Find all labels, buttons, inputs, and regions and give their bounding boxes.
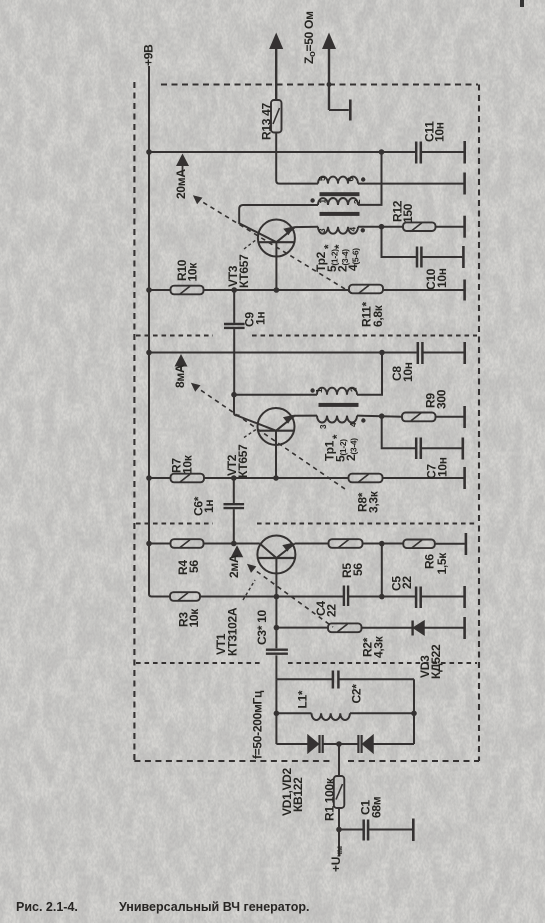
wire stage3 supply (y152) xyxy=(149,151,464,153)
shield box dashed top edge xyxy=(161,83,478,85)
svg-text:2: 2 xyxy=(353,199,362,204)
node tank right L1 xyxy=(411,711,417,717)
svg-text:С3* 10: С3* 10 xyxy=(255,609,269,645)
resistor R12 xyxy=(403,222,436,231)
varactor VD2 xyxy=(358,735,373,753)
wire stage3 base bias (y290) xyxy=(149,289,464,291)
svg-text:10н: 10н xyxy=(435,268,449,288)
wire Tr2 pin2 up to node152 xyxy=(358,152,382,205)
wire node C8 down to Tr1 pin2 xyxy=(357,353,382,395)
svg-text:R1 100к: R1 100к xyxy=(323,777,337,821)
node 152-Tr2pin2 xyxy=(379,149,385,155)
node Tr2pin4 xyxy=(379,224,385,230)
capacitor C5 xyxy=(416,587,421,609)
capacitor C8 xyxy=(418,342,423,364)
svg-text:3: 3 xyxy=(319,424,328,429)
ground C11 xyxy=(463,141,466,164)
capacitor C1 xyxy=(364,820,368,841)
wire Tr2 pin4 to R12 xyxy=(358,226,464,228)
svg-text:Универсальный ВЧ генератор.: Универсальный ВЧ генератор. xyxy=(119,900,309,914)
node VT2 collector xyxy=(231,392,237,398)
wire C7 branch xyxy=(382,416,462,448)
svg-text:150: 150 xyxy=(401,203,415,223)
current annotation arrow 20mA xyxy=(176,154,189,176)
svg-text:6: 6 xyxy=(347,177,356,182)
resistor R11 xyxy=(349,285,383,294)
stage divider dashed line 2 xyxy=(136,523,477,525)
wire L1 row xyxy=(276,712,414,714)
diode VD3 xyxy=(413,621,424,636)
svg-text:68м: 68м xyxy=(370,796,384,818)
svg-text:1: 1 xyxy=(319,199,328,204)
stage divider dashed line 1 xyxy=(136,335,477,337)
ground C1 xyxy=(412,819,415,842)
svg-text:КТ657: КТ657 xyxy=(236,444,250,478)
output arrow of R13 (RF out) xyxy=(269,33,283,50)
inductor L1 xyxy=(312,713,350,720)
transistor VT2 xyxy=(237,408,317,478)
node C1 xyxy=(336,827,342,833)
dashed leader VT1 label xyxy=(243,580,255,600)
ground C5 xyxy=(463,586,466,608)
ground R12 xyxy=(463,216,466,238)
resistor R3 xyxy=(170,592,200,601)
node rail-152 xyxy=(146,149,152,155)
svg-text:1н: 1н xyxy=(254,312,268,325)
node R2 tap xyxy=(274,625,280,631)
svg-text:56: 56 xyxy=(351,563,365,576)
tank right vertical wire xyxy=(413,679,415,744)
svg-text:3,3к: 3,3к xyxy=(367,490,381,513)
svg-text:КТ657: КТ657 xyxy=(237,254,251,288)
node VT2base-478 xyxy=(273,475,279,481)
resistor R7 xyxy=(171,474,205,483)
resistor R8 xyxy=(349,474,383,483)
resistor R1 xyxy=(334,776,345,808)
phase dot Tr2 pin1 xyxy=(310,198,314,202)
svg-text:5: 5 xyxy=(318,176,327,181)
node C4-C5 xyxy=(379,594,385,600)
svg-text:КД522: КД522 xyxy=(429,644,443,679)
capacitor C7 xyxy=(416,438,421,460)
ground C10 xyxy=(462,246,465,268)
wire VT2 collector node xyxy=(234,395,317,416)
ink speck top right xyxy=(520,0,524,7)
svg-text:1,5к: 1,5к xyxy=(435,552,449,575)
node C6-478 xyxy=(231,475,237,481)
svg-text:Рис. 2.1-4.: Рис. 2.1-4. xyxy=(16,900,78,914)
svg-text:10н: 10н xyxy=(433,122,447,142)
dashed pointer 2mA to R2 xyxy=(247,564,333,627)
svg-text:10к: 10к xyxy=(186,262,200,282)
svg-text:1н: 1н xyxy=(202,500,216,513)
svg-text:300: 300 xyxy=(435,389,449,409)
resistor R4 xyxy=(171,539,204,548)
phase dot Tr2 pin4 xyxy=(361,228,365,232)
wire Tr2 pin6 to ground xyxy=(358,183,464,185)
svg-text:22: 22 xyxy=(400,576,414,589)
phase dot Tr1 pin4 xyxy=(361,418,365,422)
resistor R5 xyxy=(329,539,363,548)
ground R8 xyxy=(463,467,466,489)
svg-text:R13 47: R13 47 xyxy=(260,102,274,140)
svg-text:КВ122: КВ122 xyxy=(291,777,305,812)
svg-text:22: 22 xyxy=(325,604,339,617)
svg-text:КТ3102А: КТ3102А xyxy=(226,607,240,656)
transformer Tr2 xyxy=(318,177,360,234)
capacitor C10 xyxy=(417,247,421,268)
svg-text:C2*: C2* xyxy=(350,684,364,704)
svg-text:4: 4 xyxy=(349,227,358,232)
shield box dashed left edge xyxy=(133,82,135,760)
svg-text:2: 2 xyxy=(350,387,359,392)
capacitor C11 xyxy=(416,142,421,164)
ground C7 xyxy=(461,438,464,460)
wire varactor row xyxy=(276,743,414,745)
stage divider dashed line 3 xyxy=(136,662,477,664)
node VT1base-596 xyxy=(274,594,280,600)
node rail-352 xyxy=(146,350,152,356)
phase dot Tr2 pin6 xyxy=(361,177,365,181)
shield box dashed bottom edge xyxy=(134,760,479,762)
svg-text:6,8к: 6,8к xyxy=(371,304,385,327)
tank left vertical wire xyxy=(275,679,277,744)
transistor VT3 xyxy=(239,205,318,290)
svg-text:+9В: +9В xyxy=(142,44,156,66)
wire R1 bottom / +U input lead xyxy=(338,808,340,856)
wire stage1 collector row (y543.5) xyxy=(149,543,465,545)
wire C10 branch xyxy=(382,227,463,257)
wire stage2 base bias (y478) xyxy=(149,477,464,479)
svg-text:56: 56 xyxy=(187,560,201,573)
node varactor center xyxy=(336,741,342,747)
dashed leader VT3 label xyxy=(244,240,257,250)
svg-text:f=50-200мГц: f=50-200мГц xyxy=(251,690,265,759)
svg-text:L1*: L1* xyxy=(296,690,310,708)
wire R13 top to output arrow xyxy=(275,47,277,100)
wire Tr1 pin4 to R9 xyxy=(357,416,464,417)
svg-text:1: 1 xyxy=(315,388,324,393)
node R5-R6 xyxy=(379,541,385,547)
dashed pointer 20mA to R11 xyxy=(193,195,354,294)
wire C5 junction up to R5R6 xyxy=(381,544,383,597)
wire +9V rail xyxy=(149,66,170,597)
transformer Tr1 xyxy=(317,388,359,423)
svg-text:3: 3 xyxy=(318,228,327,233)
current annotation arrow 8mA xyxy=(175,354,188,370)
node 352-C8 xyxy=(379,350,385,356)
resistor R2 xyxy=(328,623,362,632)
svg-text:10к: 10к xyxy=(181,454,195,474)
transistor VT1 xyxy=(257,536,295,597)
wire base node down through R2 tap xyxy=(275,597,277,680)
resistor R10 xyxy=(171,286,204,295)
capacitor C4 xyxy=(344,586,348,607)
wire output to ground tab xyxy=(329,109,349,111)
resistor R13 xyxy=(271,100,282,133)
dashed leader VT2 label xyxy=(244,430,256,438)
varactor VD1 xyxy=(308,735,323,753)
resistor R6 xyxy=(403,540,435,549)
node rail-290 xyxy=(146,287,152,293)
svg-text:20мА: 20мА xyxy=(174,169,188,199)
wire C2 row xyxy=(276,678,414,680)
phase dot Tr1 pin1 xyxy=(310,388,314,392)
svg-text:10н: 10н xyxy=(401,362,415,382)
external output arrow xyxy=(322,33,336,111)
capacitor C2 xyxy=(333,671,339,689)
shield box dashed right edge xyxy=(478,85,480,762)
node C9-290 xyxy=(231,287,237,293)
svg-text:10н: 10н xyxy=(436,457,450,477)
node VT3base-290 xyxy=(274,287,280,293)
ground output tab xyxy=(349,100,352,121)
wire varactor center to R1 xyxy=(338,744,340,776)
current annotation arrow 2mA xyxy=(231,545,243,557)
ground VD3 xyxy=(463,617,466,639)
wire R13 bottom to Tr2 pin5 xyxy=(276,133,318,184)
node rail-543 xyxy=(146,541,152,547)
capacitor C3 xyxy=(266,650,288,654)
ground Tr2 pin6 xyxy=(463,173,466,195)
svg-text:4,3к: 4,3к xyxy=(372,635,386,658)
resistor R9 xyxy=(402,413,436,422)
svg-text:4: 4 xyxy=(349,422,358,427)
capacitor C9 xyxy=(224,290,245,395)
node Tr1pin4 xyxy=(379,413,385,419)
wire R2 row (y627.6) xyxy=(276,627,463,629)
capacitor C6 xyxy=(224,478,245,544)
ground wire290 xyxy=(463,280,466,301)
ground C8 xyxy=(463,342,466,364)
ground R9 xyxy=(463,406,466,428)
ground R6 xyxy=(465,533,468,555)
wire stage2 supply (y352) xyxy=(149,352,464,354)
node rail-478 xyxy=(146,475,152,481)
wire C1 row xyxy=(339,829,412,831)
svg-text:2мА: 2мА xyxy=(227,554,241,578)
node C6-543 xyxy=(231,541,237,547)
svg-text:8мА: 8мА xyxy=(173,364,187,388)
svg-text:10к: 10к xyxy=(187,608,201,628)
wire stage1 base row (y596.5) xyxy=(170,596,464,598)
dashed pointer 8mA to R8 xyxy=(191,383,345,489)
node tank left L1 xyxy=(274,711,280,717)
